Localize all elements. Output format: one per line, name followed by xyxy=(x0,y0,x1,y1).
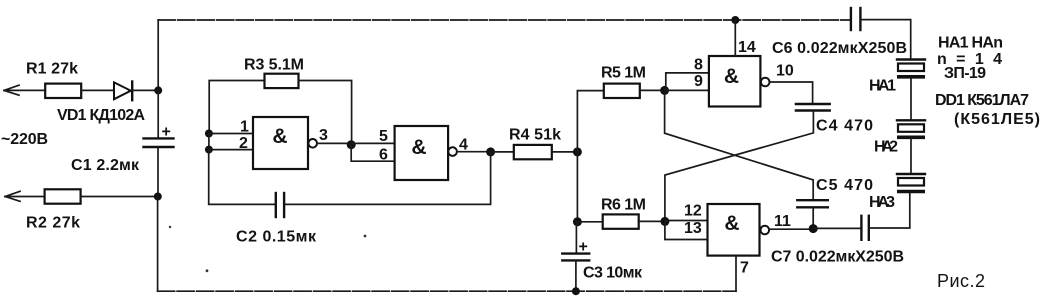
svg-text:&: & xyxy=(272,125,287,148)
input terminal arrow (upper mains lead) xyxy=(4,85,19,95)
wire R3 loop left vertical xyxy=(209,81,264,134)
wire C5 down to output-11 node xyxy=(812,207,814,228)
wire R2 node down to bottom rail corner xyxy=(157,197,159,292)
node: R4 / center vertical junction xyxy=(573,147,582,156)
wire R4 from output node xyxy=(491,151,514,153)
wire R1 to VD1 xyxy=(81,89,114,91)
gate DD1.3 xyxy=(709,56,770,107)
wire node to C7 xyxy=(813,227,861,229)
wire C3 down to bottom rail xyxy=(575,260,577,291)
svg-text:6: 6 xyxy=(379,147,388,164)
wire pin 5 into gate xyxy=(351,142,394,144)
capacitor C3 (polarized) xyxy=(562,254,589,261)
wire C2 left to input-node vertical xyxy=(209,150,276,205)
resistor R2 xyxy=(45,189,81,203)
node: output 11 / C5 / C7 junction xyxy=(809,224,818,233)
svg-text:R5 1М: R5 1М xyxy=(601,65,646,82)
wire VD1 node down to C1 xyxy=(157,90,159,138)
wire top rail right of C6 down to HA1 xyxy=(860,20,910,60)
diode VD1 xyxy=(114,82,132,101)
svg-text:R4 51k: R4 51k xyxy=(509,127,561,144)
svg-text:+: + xyxy=(162,124,171,141)
wire pin 7 to bottom rail xyxy=(735,256,737,292)
sounder HA3 xyxy=(897,174,925,192)
node: R2 / C1 / bottom-rail junction xyxy=(154,193,162,201)
svg-text:7: 7 xyxy=(740,260,749,277)
wire R5 to input node of DD1.3 xyxy=(640,89,665,91)
wire C1 down to R2 node xyxy=(157,147,159,197)
wire pin 6 drop and into gate xyxy=(351,145,394,162)
wire pin 1 into gate xyxy=(209,133,253,135)
svg-text:C1 2.2мк: C1 2.2мк xyxy=(71,157,140,174)
node: DD1.1 input pin2 junction xyxy=(205,146,213,154)
wire DD1.4 output to C5 node xyxy=(769,228,813,230)
capacitor C2 xyxy=(276,193,284,217)
svg-text:12: 12 xyxy=(684,203,702,220)
speck xyxy=(169,226,171,228)
svg-text:5: 5 xyxy=(379,128,388,145)
speck xyxy=(364,235,367,238)
svg-text:11: 11 xyxy=(774,213,791,230)
wire from upper arrow to R1 xyxy=(4,89,45,91)
wire pin 13 drop and into gate xyxy=(665,221,708,239)
wire bottom return rail xyxy=(158,290,736,292)
input terminal arrow (lower mains lead) xyxy=(5,191,20,201)
svg-text:C3 10мк: C3 10мк xyxy=(583,265,643,282)
node: R5 / pins 8-9 / cross-coupling junction xyxy=(660,86,669,95)
capacitor C7 xyxy=(861,216,868,240)
capacitor C6 xyxy=(851,8,861,30)
svg-text:C2 0.15мк: C2 0.15мк xyxy=(236,229,317,246)
wire pin 9 into gate xyxy=(665,89,709,91)
gate DD1.1 xyxy=(253,117,317,169)
speck xyxy=(206,269,209,272)
sounder HA1 xyxy=(897,60,925,77)
capacitor C4 xyxy=(796,104,830,111)
svg-text:(К561ЛЕ5): (К561ЛЕ5) xyxy=(954,111,1040,128)
gate DD1.2 xyxy=(395,126,457,180)
svg-text:C4 470: C4 470 xyxy=(816,118,873,135)
wire C4 down then diagonal to pins 12-13 node vertical xyxy=(665,111,814,222)
wire R3 to right vertical down to gate output node xyxy=(299,81,352,145)
wire C7 right and up to HA3 xyxy=(869,194,910,228)
wire tying input node verticals xyxy=(208,134,210,150)
sounder HA2 xyxy=(897,120,925,137)
resistor R3 xyxy=(265,74,299,88)
node: C3 / bottom rail junction xyxy=(572,287,580,295)
wire center vertical up to R5 line xyxy=(577,91,603,152)
wire R2 to left-rail node xyxy=(81,196,158,198)
svg-text:R6 1М: R6 1М xyxy=(601,197,646,214)
svg-text:2: 2 xyxy=(239,135,248,152)
node: VD1 / C1 / top-rail junction xyxy=(154,86,162,94)
wire HA1 to HA2 xyxy=(910,79,912,121)
wire DD1.1 output to node xyxy=(317,142,351,144)
wire pin 14 supply xyxy=(734,20,736,56)
svg-text:14: 14 xyxy=(738,39,756,56)
svg-text:C7 0.022мкХ250В: C7 0.022мкХ250В xyxy=(771,249,904,266)
svg-text:3: 3 xyxy=(319,127,328,144)
gate DD1.4 xyxy=(708,204,770,256)
svg-text:9: 9 xyxy=(694,73,703,90)
svg-text:R1 27k: R1 27k xyxy=(26,61,78,78)
wire from pins 8-9 node down then diagonal to C5 xyxy=(665,90,814,200)
wire R6 from center vertical xyxy=(577,221,602,223)
capacitor C5 xyxy=(797,200,828,207)
svg-text:13: 13 xyxy=(684,220,702,237)
svg-text:НА1: НА1 xyxy=(869,78,896,95)
resistor R4 xyxy=(514,145,552,159)
svg-text:DD1 К561ЛА7: DD1 К561ЛА7 xyxy=(935,92,1029,109)
wire pin 2 into gate xyxy=(209,149,253,151)
svg-text:C5 470: C5 470 xyxy=(816,177,873,194)
svg-text:VD1 КД102А: VD1 КД102А xyxy=(57,107,145,124)
resistor R1 xyxy=(45,84,81,98)
svg-text:&: & xyxy=(411,136,426,159)
node: DD1.1 input pin1 junction xyxy=(205,130,213,138)
node: DD1.1 output / R3 / DD1.2 input junction xyxy=(347,140,356,149)
wire HA2 to HA3 xyxy=(910,139,912,174)
wire top supply rail xyxy=(158,19,851,21)
node: DD1.2 output / R4 / C2 junction xyxy=(486,147,495,156)
node: R6 / center vertical junction xyxy=(573,217,582,226)
wire VD1 to left-rail node xyxy=(132,89,158,91)
wire C2 feedback: down from output node and left to C2 xyxy=(284,152,491,205)
svg-text:НА1 НАn: НА1 НАn xyxy=(938,35,1003,52)
wire DD1.3 output right and down to C4 xyxy=(770,82,813,104)
svg-text:8: 8 xyxy=(694,57,703,74)
wire C3 branch: center vertical down to C3 xyxy=(575,222,577,254)
svg-text:НА2: НА2 xyxy=(874,139,898,156)
wire pin 8 riser and into gate xyxy=(666,73,709,91)
svg-text:С6 0.022мкХ250В: С6 0.022мкХ250В xyxy=(772,40,907,57)
svg-text:R3 5.1М: R3 5.1М xyxy=(244,57,304,74)
wire pin 12 into gate xyxy=(665,220,708,222)
wire left vertical, top rail corner down to VD1 node xyxy=(157,20,159,90)
svg-text:&: & xyxy=(724,65,739,88)
svg-text:ЗП-19: ЗП-19 xyxy=(944,65,986,82)
svg-text:+: + xyxy=(579,239,588,256)
node: R6 / pins 12-13 / cross-coupling junction xyxy=(660,217,669,226)
svg-text:Рис.2: Рис.2 xyxy=(937,271,985,291)
wire R6 to pins 12-13 node xyxy=(639,220,665,222)
node: pin 14 on top rail xyxy=(731,16,739,24)
svg-text:1: 1 xyxy=(240,119,249,136)
resistor R5 xyxy=(604,84,640,98)
wire DD1.2 output to node xyxy=(457,151,491,153)
svg-text:R2 27k: R2 27k xyxy=(26,215,80,232)
svg-text:&: & xyxy=(724,212,739,235)
capacitor C1 (polarized) xyxy=(144,138,174,147)
svg-text:НА3: НА3 xyxy=(869,194,895,211)
resistor R6 xyxy=(603,214,639,228)
svg-text:~220В: ~220В xyxy=(1,131,48,148)
wire from lower arrow to R2 xyxy=(5,196,45,198)
wire center vertical down to R6 line xyxy=(576,152,578,222)
svg-text:10: 10 xyxy=(776,63,794,80)
wire R4 to center vertical xyxy=(552,151,578,153)
